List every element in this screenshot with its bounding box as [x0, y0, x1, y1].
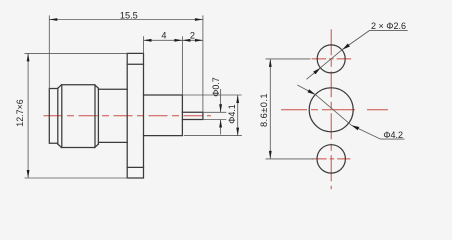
center pin phi0.7: [182, 112, 203, 119]
arrow on top hole upper right: [342, 44, 350, 50]
hex nut outline: [58, 85, 99, 148]
dim 12.7x6 bottom extension: [25, 177, 128, 179]
extension line flange right for dim 4: [143, 36, 145, 53]
body between nut and flange: [98, 89, 127, 142]
top mounting hole phi2.6: [317, 45, 345, 73]
svg-text:12.7×6: 12.7×6: [15, 99, 25, 126]
svg-text:2: 2: [190, 30, 195, 40]
pin bottom extension for phi0.7: [203, 119, 226, 121]
svg-text:8.6±0.1: 8.6±0.1: [259, 93, 269, 127]
svg-text:Φ4.2: Φ4.2: [383, 130, 403, 140]
arrow phi0.7 lower: [219, 120, 222, 128]
svg-text:Φ4.1: Φ4.1: [227, 104, 237, 123]
svg-text:4: 4: [161, 30, 166, 40]
phi4.1 top extension: [182, 94, 241, 96]
arrow 8.6 bottom: [269, 151, 272, 159]
arrow 12.7x6 top: [27, 53, 30, 61]
side view centerline: [44, 115, 212, 117]
rear body phi4.1: [144, 95, 183, 136]
extension line body end for dims 4/2: [181, 36, 183, 95]
extension line left (15.5): [48, 15, 50, 88]
svg-text:2 × Φ2.6: 2 × Φ2.6: [371, 21, 406, 31]
arrow 8.6 top: [269, 59, 272, 67]
hex nut corner chamfers: [58, 85, 99, 148]
phi0.7 dim line lower: [220, 120, 222, 135]
flange plate: [127, 53, 143, 178]
dim 12.7x6 top extension: [25, 52, 128, 54]
leader 2xphi2.6 diagonal through top hole: [307, 31, 408, 80]
middle hole horizontal centerline: [281, 109, 388, 111]
arrow 15.5 right: [195, 18, 203, 21]
svg-text:15.5: 15.5: [120, 10, 138, 20]
dimension line 15.5: [49, 19, 203, 21]
arrow 4 left: [144, 39, 152, 42]
phi4.1 bottom extension: [184, 135, 242, 137]
arrow 12.7x6 bottom: [27, 170, 30, 178]
arrow 2 left: [182, 39, 190, 42]
phi0.7 dim line upper: [220, 89, 222, 112]
arrow 15.5 left: [49, 18, 57, 21]
phi4.1 dim line: [237, 95, 239, 136]
connector end cap: [49, 89, 58, 144]
arrow 2 right: [195, 39, 203, 42]
center hole phi4.2: [309, 88, 353, 132]
arrow phi0.7 upper: [219, 104, 222, 112]
dim 8.6 line: [269, 59, 271, 159]
extension line right (15.5 and 2): [202, 15, 204, 112]
bottom hole horizontal centerline: [312, 158, 350, 160]
dim 12.7x6 line: [27, 53, 29, 178]
vertical centerline through all holes: [330, 29, 332, 189]
dimension line 4 and 2: [144, 39, 203, 41]
flange corner radius lines: [127, 64, 143, 167]
pin top extension for phi0.7: [203, 111, 226, 113]
dim 8.6 top extension: [266, 58, 311, 60]
bottom mounting hole phi2.6: [317, 145, 345, 173]
arrow on center hole lower right: [351, 125, 359, 130]
arrow phi4.1 bottom: [236, 128, 239, 136]
arrow phi4.1 top: [236, 95, 239, 103]
dim 8.6 bottom extension: [266, 158, 314, 160]
arrow 4 right: [174, 39, 182, 42]
leader phi4.2 diagonal through center hole: [297, 85, 404, 139]
top hole horizontal centerline: [312, 58, 353, 60]
arrow on top hole lower left: [313, 68, 320, 75]
svg-text:Φ0.7: Φ0.7: [211, 77, 221, 96]
arrow on center hole upper left: [308, 89, 316, 94]
hex nut inner corner lines: [62, 85, 95, 147]
